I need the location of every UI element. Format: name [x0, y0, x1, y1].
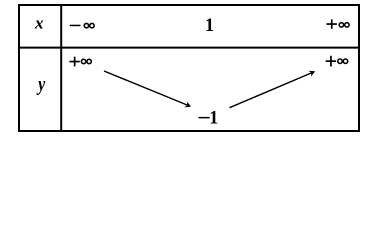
- vertical divider between header column and value area: [60, 5, 62, 131]
- svg-text:x: x: [34, 14, 44, 33]
- infinity of -inf (row 1): [84, 23, 94, 27]
- horizontal divider between x-row and y-row: [19, 47, 359, 49]
- infinity of +inf (row 2 right): [338, 59, 348, 63]
- infinity of +inf (row 2 left): [81, 59, 91, 63]
- svg-text:1: 1: [209, 108, 218, 128]
- svg-text:y: y: [36, 73, 45, 97]
- decreasing arrow (left): [104, 71, 191, 107]
- minus sign of -1 (row 2): [199, 117, 210, 119]
- plus sign of +inf (row 2 left): [69, 57, 79, 67]
- plus sign of +inf (row 1): [327, 19, 337, 28]
- plus sign of +inf (row 2 right): [326, 56, 336, 67]
- svg-text:1: 1: [205, 16, 214, 36]
- increasing arrow (right): [230, 71, 316, 108]
- minus sign of -inf (row 1): [70, 25, 81, 27]
- infinity of +inf (row 1): [339, 23, 349, 27]
- table outer border: [19, 5, 359, 131]
